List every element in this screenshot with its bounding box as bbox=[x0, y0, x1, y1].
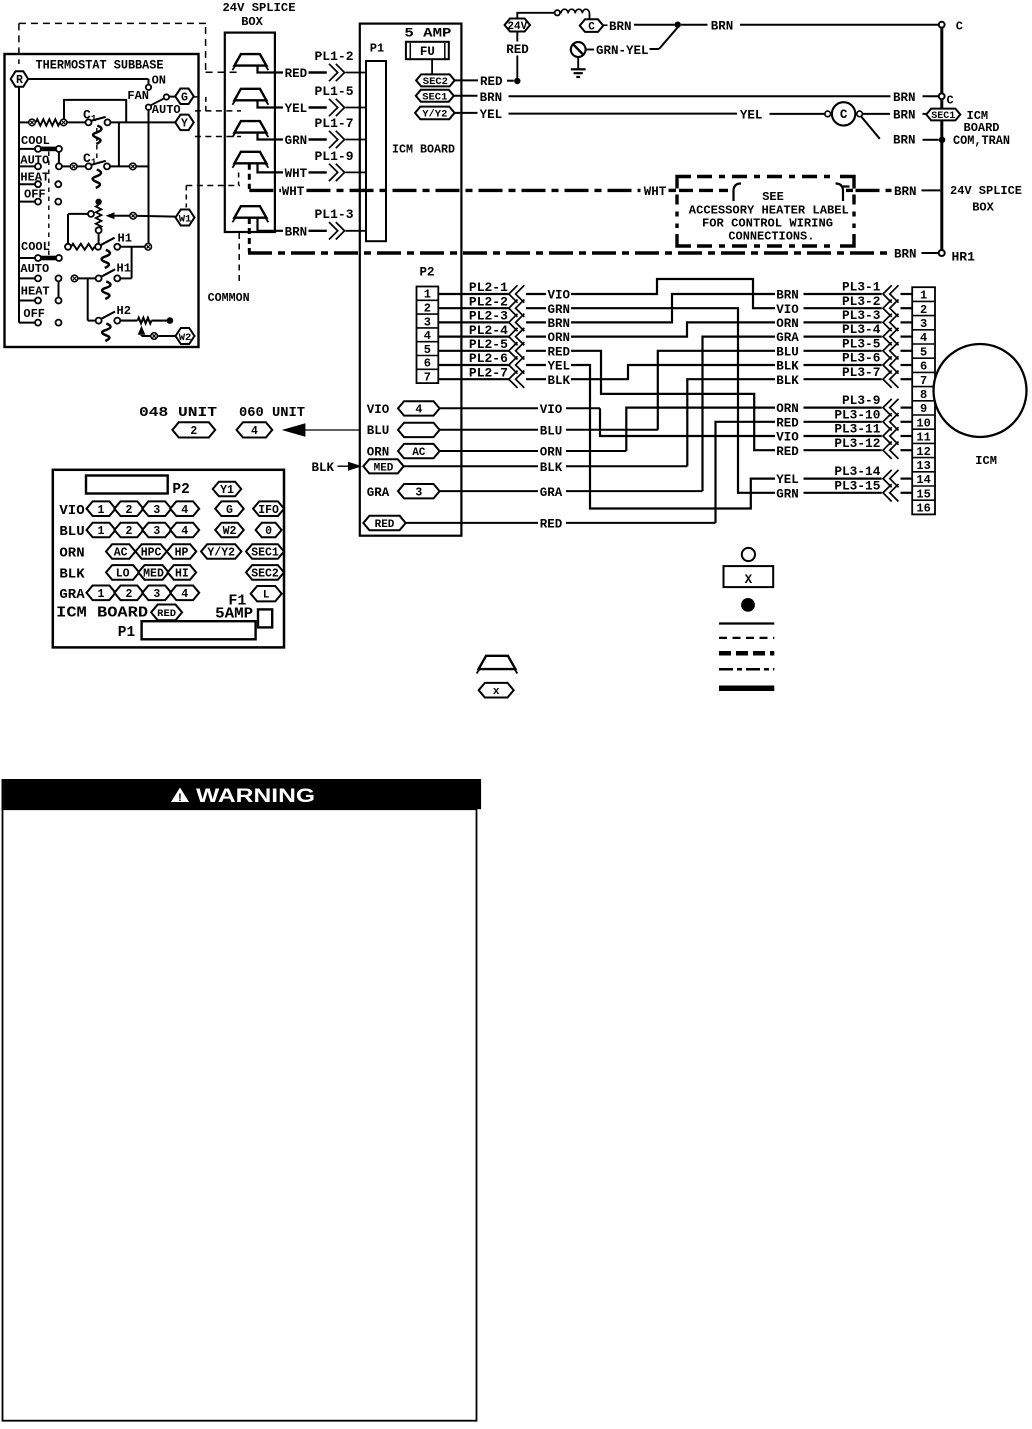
svg-text:VIO: VIO bbox=[540, 403, 563, 417]
fan switch blade bbox=[150, 98, 164, 105]
dashed wire Y to splice box bbox=[195, 136, 241, 138]
legend wire nut symbol bbox=[479, 656, 516, 669]
svg-text:MED: MED bbox=[143, 568, 164, 581]
svg-text:060 UNIT: 060 UNIT bbox=[239, 406, 305, 421]
legend junction dot bbox=[741, 598, 755, 612]
wire ORN PL2-4 to PL3-3 bbox=[571, 322, 775, 336]
svg-text:BRN: BRN bbox=[548, 317, 571, 331]
svg-text:BOX: BOX bbox=[972, 201, 994, 215]
svg-text:PL3-11: PL3-11 bbox=[834, 422, 880, 437]
svg-text:6: 6 bbox=[424, 357, 431, 371]
svg-text:PL3-10: PL3-10 bbox=[834, 407, 880, 422]
wire nut WHT bbox=[234, 152, 266, 164]
svg-text:FAN: FAN bbox=[127, 89, 149, 103]
legend line dash-dot bbox=[719, 668, 774, 671]
svg-text:VIO: VIO bbox=[367, 403, 390, 417]
svg-text:0: 0 bbox=[265, 525, 272, 538]
wire PL2-5 RED bbox=[438, 350, 509, 352]
svg-text:16: 16 bbox=[916, 502, 930, 516]
svg-text:3: 3 bbox=[415, 486, 422, 499]
svg-text:C: C bbox=[947, 93, 954, 107]
svg-text:SEC2: SEC2 bbox=[251, 568, 279, 581]
tag RED bbox=[363, 516, 405, 530]
ground symbol bbox=[577, 57, 579, 69]
svg-text:24V SPLICE: 24V SPLICE bbox=[223, 1, 296, 15]
svg-text:PL3-3: PL3-3 bbox=[842, 308, 881, 323]
wire nut BRN bbox=[234, 206, 266, 218]
wire BLU to PL3-5 bbox=[658, 351, 775, 430]
svg-text:C: C bbox=[588, 22, 595, 34]
connector PL3 pin housing bbox=[912, 287, 935, 514]
tag 24V bbox=[505, 19, 531, 32]
wire entry hooks bbox=[734, 184, 742, 202]
link H1 rows bbox=[131, 247, 133, 279]
svg-text:1: 1 bbox=[98, 588, 105, 601]
tag Y/Y2 bbox=[415, 107, 455, 120]
svg-text:4: 4 bbox=[920, 331, 927, 345]
terminal Y bbox=[175, 115, 194, 130]
svg-text:5: 5 bbox=[424, 343, 431, 357]
svg-text:YEL: YEL bbox=[480, 108, 503, 122]
wire BLK PL2-7 to PL3-6 bbox=[571, 365, 775, 379]
svg-text:ICM BOARD: ICM BOARD bbox=[56, 606, 148, 622]
legend terminal circle bbox=[742, 548, 755, 561]
nut leads bbox=[258, 66, 284, 73]
ICM circle bbox=[934, 344, 1027, 437]
svg-text:RED: RED bbox=[506, 43, 529, 57]
svg-text:VIO: VIO bbox=[548, 289, 571, 303]
svg-text:4: 4 bbox=[181, 525, 188, 538]
wire VIO lower to PL3-11 bbox=[600, 408, 775, 436]
svg-text:H1: H1 bbox=[118, 232, 132, 246]
svg-text:P1: P1 bbox=[370, 42, 384, 56]
terminal R bbox=[11, 71, 29, 87]
transformer coil bbox=[561, 9, 589, 13]
svg-text:SEC1: SEC1 bbox=[931, 111, 955, 122]
svg-text:5 AMP: 5 AMP bbox=[404, 27, 451, 41]
wire R to fan switch bbox=[28, 78, 148, 80]
wire PL2-2 GRN bbox=[438, 307, 509, 309]
branch to H2 bbox=[87, 278, 89, 320]
wire fan AUTO down to Y row bbox=[148, 110, 150, 244]
svg-text:H1: H1 bbox=[117, 261, 131, 275]
ground screw bbox=[571, 42, 586, 57]
svg-text:GRN: GRN bbox=[776, 487, 799, 501]
wire VIO PL2-1 to PL3-2 bbox=[571, 279, 775, 308]
svg-text:BLU: BLU bbox=[776, 345, 799, 359]
svg-text:x: x bbox=[493, 686, 500, 698]
svg-text:AUTO: AUTO bbox=[20, 262, 49, 276]
terminal G bbox=[175, 89, 194, 105]
svg-text:AC: AC bbox=[114, 547, 128, 560]
field lead WHT heavy dashed bbox=[248, 164, 251, 189]
switch H2 bbox=[88, 320, 96, 322]
svg-text:11: 11 bbox=[916, 431, 930, 445]
svg-text:RED: RED bbox=[540, 518, 563, 532]
svg-text:4: 4 bbox=[424, 329, 431, 343]
svg-text:CONNECTIONS.: CONNECTIONS. bbox=[728, 230, 814, 244]
svg-text:GRA: GRA bbox=[59, 587, 85, 603]
legend line heavy dashed bbox=[719, 651, 774, 656]
legend line solid bbox=[719, 622, 774, 624]
field lead BRN heavy dashed bbox=[248, 218, 251, 252]
wire Y/Y2 YEL to contactor C bbox=[455, 112, 478, 114]
svg-text:BLK: BLK bbox=[540, 461, 563, 475]
svg-text:C: C bbox=[956, 19, 963, 33]
svg-text:BRN: BRN bbox=[480, 91, 503, 105]
svg-text:P2: P2 bbox=[420, 266, 435, 280]
tag SEC1 bbox=[416, 90, 454, 102]
wire left wall vertical from R bbox=[18, 87, 20, 323]
svg-text:2: 2 bbox=[424, 302, 431, 316]
svg-text:W1: W1 bbox=[179, 213, 192, 225]
svg-text:FOR CONTROL WIRING: FOR CONTROL WIRING bbox=[702, 217, 833, 231]
svg-text:Y/Y2: Y/Y2 bbox=[422, 109, 447, 121]
contactor coil C circle bbox=[825, 111, 831, 117]
legend line dashed bbox=[719, 637, 774, 639]
svg-text:6: 6 bbox=[920, 360, 927, 374]
terminal C mid bbox=[939, 93, 945, 99]
svg-text:BLU: BLU bbox=[59, 524, 84, 540]
svg-text:GRA: GRA bbox=[776, 331, 799, 345]
dash-dot WHT field control line bbox=[249, 189, 281, 192]
svg-text:AUTO: AUTO bbox=[152, 103, 181, 117]
svg-text:BLK: BLK bbox=[59, 567, 85, 583]
wire SEC1 BRN to terminal C bbox=[454, 95, 478, 97]
svg-text:C: C bbox=[840, 108, 848, 122]
svg-text:2: 2 bbox=[125, 504, 132, 517]
svg-text:13: 13 bbox=[916, 459, 930, 473]
svg-text:OFF: OFF bbox=[23, 307, 45, 321]
svg-text:GRN-YEL: GRN-YEL bbox=[596, 44, 649, 58]
wire PL2-3 BRN bbox=[438, 321, 509, 323]
svg-text:VIO: VIO bbox=[59, 503, 84, 519]
wire fan to G bbox=[169, 96, 175, 98]
fan loop wire bbox=[64, 100, 126, 123]
terminal C top bbox=[939, 22, 945, 28]
svg-text:PL3-6: PL3-6 bbox=[842, 351, 880, 366]
svg-text:ICM BOARD: ICM BOARD bbox=[392, 143, 455, 156]
svg-text:BRN: BRN bbox=[894, 248, 917, 262]
svg-text:BOX: BOX bbox=[241, 15, 263, 29]
ICM board legend box bbox=[53, 470, 284, 648]
svg-text:P1: P1 bbox=[118, 625, 136, 641]
svg-text:W2: W2 bbox=[179, 332, 192, 344]
wire PL2-7 BLK bbox=[438, 378, 509, 380]
wire RED PL2-5 to PL3-12 bbox=[571, 351, 775, 450]
wire ORN lower to PL3-9 bbox=[626, 408, 775, 451]
svg-text:1: 1 bbox=[98, 525, 105, 538]
svg-text:L: L bbox=[263, 590, 270, 602]
svg-text:X: X bbox=[745, 573, 753, 587]
legend P2 connector bbox=[86, 476, 168, 494]
svg-text:SEC2: SEC2 bbox=[423, 76, 448, 88]
svg-text:3: 3 bbox=[153, 588, 160, 601]
24V splice box bbox=[225, 33, 275, 232]
svg-text:ACCESSORY HEATER LABEL: ACCESSORY HEATER LABEL bbox=[689, 203, 849, 217]
svg-text:SEC1: SEC1 bbox=[422, 92, 447, 104]
svg-text:SEE: SEE bbox=[762, 190, 784, 204]
svg-text:BLU: BLU bbox=[367, 424, 390, 438]
svg-text:VIO: VIO bbox=[776, 431, 799, 445]
svg-text:RED: RED bbox=[480, 75, 503, 89]
svg-text:HR1: HR1 bbox=[952, 249, 976, 264]
svg-text:!: ! bbox=[178, 792, 182, 804]
svg-text:BLK: BLK bbox=[312, 461, 335, 475]
terminal W2 bbox=[176, 328, 195, 344]
svg-text:BRN: BRN bbox=[776, 289, 799, 303]
svg-text:HI: HI bbox=[175, 568, 189, 581]
switch C1 upper bbox=[67, 121, 86, 123]
svg-text:7: 7 bbox=[920, 374, 927, 388]
wire 24V to coil bbox=[517, 13, 554, 19]
thermostat subbase box bbox=[5, 54, 199, 347]
dashed wire G to splice box bbox=[194, 96, 200, 98]
svg-text:IFO: IFO bbox=[258, 504, 279, 517]
svg-text:PL1-5: PL1-5 bbox=[315, 84, 354, 99]
svg-text:1: 1 bbox=[920, 289, 927, 303]
linkage dashes C1 bbox=[96, 128, 98, 159]
svg-text:2: 2 bbox=[920, 303, 927, 317]
svg-text:GRA: GRA bbox=[540, 486, 563, 500]
svg-text:3: 3 bbox=[153, 525, 160, 538]
wire nut RED bbox=[234, 54, 266, 66]
svg-text:PL1-7: PL1-7 bbox=[315, 116, 354, 131]
fan switch ON contact bbox=[146, 85, 151, 90]
svg-text:PL2-7: PL2-7 bbox=[469, 365, 508, 380]
dash-dot BRN field control line bbox=[248, 251, 892, 254]
svg-text:PL3-9: PL3-9 bbox=[842, 393, 880, 408]
terminal W1 bbox=[176, 210, 195, 226]
row H1 upper bbox=[65, 244, 71, 250]
svg-text:VIO: VIO bbox=[776, 303, 799, 317]
svg-text:Y1: Y1 bbox=[220, 484, 234, 497]
svg-text:FU: FU bbox=[420, 45, 435, 59]
wire PL2-1 VIO bbox=[438, 293, 509, 295]
svg-text:COOL: COOL bbox=[21, 240, 50, 254]
svg-text:YEL: YEL bbox=[285, 102, 308, 116]
branch down to AUTO row bbox=[118, 122, 120, 166]
dash-dot through box bbox=[679, 189, 728, 192]
svg-text:1: 1 bbox=[424, 288, 431, 302]
svg-text:ORN: ORN bbox=[548, 331, 571, 345]
thermometer arrow W2 bbox=[138, 326, 146, 335]
svg-text:RED: RED bbox=[776, 416, 799, 430]
svg-text:1: 1 bbox=[98, 504, 105, 517]
svg-text:GRA: GRA bbox=[367, 486, 390, 500]
svg-text:BRN: BRN bbox=[285, 225, 308, 239]
heavy vertical bus wire bbox=[940, 28, 943, 251]
svg-text:Y/Y2: Y/Y2 bbox=[207, 547, 235, 560]
svg-text:ORN: ORN bbox=[776, 317, 799, 331]
svg-text:PL2-3: PL2-3 bbox=[469, 309, 508, 324]
svg-text:14: 14 bbox=[916, 473, 930, 487]
legend tag Y1 bbox=[213, 482, 242, 497]
svg-text:2: 2 bbox=[125, 588, 132, 601]
accessory heater dashed box bbox=[677, 177, 691, 189]
svg-text:G: G bbox=[181, 91, 188, 104]
svg-text:3: 3 bbox=[153, 504, 160, 517]
svg-text:PL3-1: PL3-1 bbox=[842, 280, 881, 295]
svg-text:PL1-3: PL1-3 bbox=[315, 207, 354, 222]
svg-text:4: 4 bbox=[181, 504, 188, 517]
svg-text:BLK: BLK bbox=[776, 374, 799, 388]
resistor W2 row bbox=[138, 318, 152, 324]
svg-text:PL2-5: PL2-5 bbox=[469, 337, 508, 352]
svg-text:YEL: YEL bbox=[548, 360, 571, 374]
svg-text:PL3-15: PL3-15 bbox=[834, 478, 880, 493]
svg-text:24V: 24V bbox=[507, 21, 527, 33]
wire PL2-6 YEL bbox=[438, 364, 509, 366]
svg-text:H2: H2 bbox=[117, 304, 131, 318]
svg-text:G: G bbox=[226, 504, 233, 517]
wire W1 to pot arrow bbox=[134, 215, 176, 218]
svg-text:4: 4 bbox=[181, 588, 188, 601]
selector linkage dashes bbox=[48, 152, 50, 256]
svg-text:BRN: BRN bbox=[894, 185, 917, 199]
svg-text:3: 3 bbox=[424, 315, 431, 329]
thermostat subbase dashed field-wiring boundary bbox=[19, 22, 206, 24]
wire YEL PL2-6 to PL3-14 bbox=[571, 365, 775, 509]
terminal HR1 bbox=[939, 250, 945, 256]
svg-text:OFF: OFF bbox=[24, 187, 46, 201]
svg-text:BRN: BRN bbox=[893, 91, 916, 105]
svg-text:THERMOSTAT SUBBASE: THERMOSTAT SUBBASE bbox=[36, 58, 164, 72]
svg-text:COM,TRAN: COM,TRAN bbox=[953, 134, 1010, 148]
svg-text:PL3-14: PL3-14 bbox=[834, 464, 880, 479]
svg-text:BRN: BRN bbox=[609, 20, 632, 34]
svg-text:PL2-2: PL2-2 bbox=[469, 294, 508, 309]
svg-text:GRN: GRN bbox=[548, 303, 571, 317]
legend line heavy bbox=[719, 686, 774, 692]
svg-text:2: 2 bbox=[190, 425, 197, 438]
svg-text:COMMON: COMMON bbox=[208, 291, 250, 305]
wire SEC2 RED to 24V dot bbox=[455, 79, 478, 81]
svg-text:ON: ON bbox=[152, 74, 166, 88]
svg-text:GRN: GRN bbox=[285, 134, 308, 148]
legend plug box bbox=[724, 566, 774, 587]
row1 stub and contacts bbox=[19, 121, 29, 123]
svg-text:W2: W2 bbox=[223, 525, 237, 538]
svg-text:4: 4 bbox=[415, 404, 422, 417]
svg-text:7: 7 bbox=[424, 371, 431, 385]
wire BLK lower to PL3-7 bbox=[687, 379, 775, 466]
resistor row1 bbox=[36, 119, 60, 125]
svg-text:12: 12 bbox=[916, 445, 930, 459]
legend splice symbol bbox=[479, 683, 514, 698]
svg-text:2: 2 bbox=[125, 525, 132, 538]
svg-text:PL2-1: PL2-1 bbox=[469, 280, 508, 295]
svg-text:PL3-5: PL3-5 bbox=[842, 336, 881, 351]
svg-text:BOARD: BOARD bbox=[964, 121, 1000, 135]
switch C1 lower bbox=[86, 163, 92, 169]
svg-text:Y: Y bbox=[181, 118, 188, 131]
wire PL2-4 ORN bbox=[438, 336, 509, 338]
svg-text:COOL: COOL bbox=[21, 134, 50, 148]
legend tag RED bbox=[151, 605, 182, 621]
svg-text:SEC1: SEC1 bbox=[251, 547, 279, 560]
svg-text:BLU: BLU bbox=[540, 424, 563, 438]
svg-text:PL2-6: PL2-6 bbox=[469, 351, 508, 366]
svg-text:MED: MED bbox=[374, 462, 394, 474]
wire nut tag C bbox=[580, 19, 604, 32]
wire GRA to PL3-4 bbox=[703, 337, 776, 492]
tag SEC1 on line bbox=[926, 109, 960, 121]
svg-text:BLK: BLK bbox=[548, 374, 571, 388]
svg-text:WHT: WHT bbox=[285, 167, 308, 181]
svg-text:8: 8 bbox=[920, 388, 927, 402]
svg-text:BRN: BRN bbox=[711, 19, 734, 33]
wire C to COM TRAN bbox=[861, 116, 880, 139]
svg-text:WARNING: WARNING bbox=[196, 786, 315, 807]
svg-text:PL3-2: PL3-2 bbox=[842, 294, 880, 309]
dashed COMMON lead bbox=[238, 233, 240, 282]
wire BRN PL2-3 to PL3-1 bbox=[571, 294, 775, 322]
svg-text:HP: HP bbox=[175, 547, 189, 560]
wire nut YEL bbox=[234, 89, 266, 101]
heat anticipator pot bbox=[95, 199, 101, 205]
svg-text:3: 3 bbox=[920, 317, 927, 331]
svg-text:PL2-4: PL2-4 bbox=[469, 323, 508, 338]
svg-text:4: 4 bbox=[251, 425, 258, 438]
svg-text:LO: LO bbox=[116, 568, 130, 581]
svg-text:R: R bbox=[16, 74, 23, 87]
wire nut GRN bbox=[234, 121, 266, 133]
tag 4 060 unit bbox=[237, 422, 273, 437]
svg-text:WHT: WHT bbox=[644, 185, 667, 199]
tag 2 048 unit bbox=[172, 422, 215, 437]
wire to W2 bbox=[142, 335, 151, 337]
svg-text:WHT: WHT bbox=[282, 185, 305, 199]
warning body box bbox=[3, 809, 477, 1420]
svg-text:BRN: BRN bbox=[893, 109, 916, 123]
svg-text:RED: RED bbox=[375, 519, 395, 531]
svg-text:YEL: YEL bbox=[776, 473, 799, 487]
svg-text:10: 10 bbox=[916, 416, 930, 430]
svg-text:RED: RED bbox=[776, 445, 799, 459]
svg-text:AC: AC bbox=[412, 447, 426, 459]
ICM board outline bbox=[360, 24, 462, 536]
svg-text:5: 5 bbox=[920, 345, 927, 359]
svg-text:RED: RED bbox=[157, 608, 176, 620]
dashed wire W1 to splice box bbox=[186, 185, 240, 187]
svg-text:PL3-12: PL3-12 bbox=[834, 436, 880, 451]
svg-text:PL3-7: PL3-7 bbox=[842, 365, 880, 380]
wire GRN-YEL bbox=[586, 49, 594, 51]
svg-text:ORN: ORN bbox=[776, 402, 799, 416]
svg-text:BRN: BRN bbox=[893, 134, 916, 148]
svg-text:15: 15 bbox=[916, 487, 930, 501]
wire RED lower to PL3-10 bbox=[716, 422, 776, 523]
svg-text:24V SPLICE: 24V SPLICE bbox=[950, 184, 1022, 198]
svg-text:RED: RED bbox=[548, 345, 571, 359]
svg-text:HEAT: HEAT bbox=[21, 285, 50, 299]
wire C1 row to Y bbox=[110, 121, 175, 123]
svg-text:ORN: ORN bbox=[540, 446, 563, 460]
svg-text:PL1-9: PL1-9 bbox=[315, 149, 354, 164]
svg-text:048 UNIT: 048 UNIT bbox=[139, 406, 217, 421]
warning header bar bbox=[2, 779, 482, 809]
svg-text:ORN: ORN bbox=[59, 546, 84, 562]
tag SEC2 bbox=[416, 74, 455, 86]
svg-text:P2: P2 bbox=[172, 482, 189, 498]
svg-text:HPC: HPC bbox=[141, 547, 162, 560]
svg-text:9: 9 bbox=[920, 402, 927, 416]
svg-text:PL3-4: PL3-4 bbox=[842, 322, 881, 337]
svg-text:YEL: YEL bbox=[740, 108, 763, 122]
svg-text:ICM: ICM bbox=[975, 454, 997, 468]
svg-text:PL1-2: PL1-2 bbox=[315, 49, 354, 64]
